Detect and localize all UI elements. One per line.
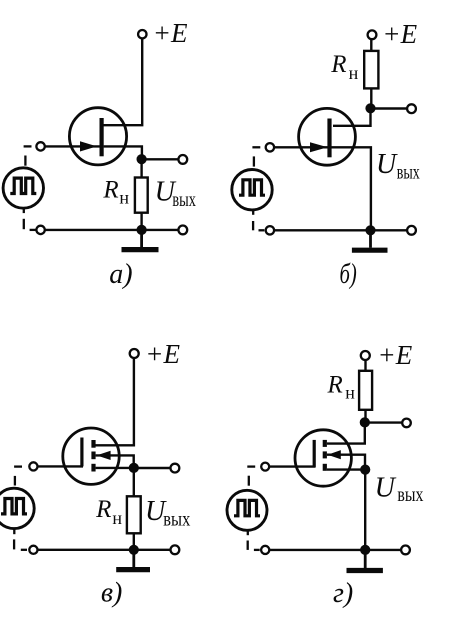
wire node to resistor a: [140, 159, 142, 177]
ground b: [352, 230, 388, 250]
svg-text:н: н: [345, 383, 355, 403]
ground g: [347, 550, 383, 571]
label Rn g: [327, 371, 356, 402]
generator G4 g: [227, 490, 267, 530]
node input terminal bottom b: [266, 226, 274, 234]
junction source node g: [360, 465, 370, 475]
node input terminal bottom a: [36, 226, 44, 234]
svg-text:б): б): [340, 259, 357, 290]
label Uout g: [375, 473, 424, 506]
svg-text:+E: +E: [153, 18, 188, 48]
svg-text:н: н: [119, 188, 129, 208]
wire dashed input bottom v: [14, 529, 27, 550]
wire dashed input top g: [247, 467, 255, 486]
wire dashed input bottom a: [24, 208, 36, 230]
node output terminal bottom g: [401, 546, 410, 555]
junction drain node b: [365, 103, 375, 113]
wire dashed input bottom g: [248, 530, 260, 550]
transistor VT1 JFET a: [69, 108, 126, 165]
wire resistor to node g: [364, 410, 366, 423]
svg-text:R: R: [102, 177, 118, 204]
node input terminal top b: [266, 143, 274, 151]
junction bottom node a: [137, 225, 147, 235]
wire bottom rail v: [38, 549, 171, 551]
node output terminal top g: [402, 419, 411, 428]
svg-text:U: U: [375, 473, 397, 504]
wire resistor to rail a: [140, 213, 142, 230]
wire gate b: [274, 146, 327, 148]
resistor Rn a: [135, 178, 148, 213]
node output terminal bottom v: [171, 545, 180, 554]
wire source node to rail g: [364, 470, 366, 550]
svg-text:в): в): [101, 578, 122, 609]
resistor Rn b: [364, 51, 378, 89]
junction bottom node g: [360, 545, 370, 555]
svg-text:R: R: [95, 496, 111, 523]
svg-text:R: R: [327, 371, 343, 398]
wire +E to resistor b: [370, 39, 372, 51]
wire output top v: [134, 467, 171, 469]
node input terminal bottom v: [29, 546, 37, 554]
ground v: [116, 550, 150, 570]
wire resistor to rail v: [133, 533, 135, 550]
wire substrate to node v: [96, 455, 134, 468]
wire source to node v: [96, 467, 134, 469]
wire bottom rail g: [269, 549, 401, 551]
wire source to rail b: [332, 147, 371, 230]
wire output top a: [142, 158, 179, 160]
node output terminal bottom b: [407, 226, 416, 235]
wire output top g: [365, 421, 403, 423]
svg-text:+E: +E: [145, 339, 180, 369]
node input terminal top v: [29, 462, 37, 470]
wire dashed input top a: [24, 146, 32, 165]
node +E terminal a: [138, 30, 146, 38]
junction bottom node v: [129, 545, 139, 555]
svg-text:U: U: [376, 149, 398, 180]
resistor Rn v: [127, 496, 141, 533]
label Uout v: [145, 496, 190, 530]
wire dashed input top b: [252, 147, 260, 166]
label Uout b: [376, 149, 420, 184]
svg-text:н: н: [349, 63, 359, 83]
wire node to resistor v: [133, 468, 135, 497]
wire resistor to node b: [370, 88, 372, 108]
svg-text:вых: вых: [397, 162, 420, 184]
svg-text:вых: вых: [172, 189, 196, 211]
label Rn b: [330, 51, 358, 83]
node output terminal bottom a: [178, 226, 187, 235]
svg-text:R: R: [330, 51, 346, 78]
resistor Rn g: [359, 371, 372, 410]
generator G1 a: [3, 168, 43, 208]
svg-text:вых: вых: [163, 508, 190, 530]
svg-text:+E: +E: [378, 340, 413, 370]
wire dashed input bottom b: [253, 210, 264, 230]
junction drain node g: [360, 417, 370, 427]
wire output top b: [371, 107, 408, 109]
junction bottom node b: [365, 225, 375, 235]
node input terminal bottom g: [261, 546, 269, 554]
transistor VT4 MOSFET g: [295, 430, 351, 486]
wire drain to +E a: [102, 38, 143, 125]
node input terminal top a: [36, 142, 44, 150]
label Uout a: [155, 176, 196, 210]
svg-text:а): а): [109, 259, 132, 290]
svg-text:вых: вых: [397, 484, 423, 506]
junction source node a: [137, 154, 147, 164]
generator G2 b: [232, 170, 272, 210]
junction source node v: [129, 463, 139, 473]
wire bottom rail b: [274, 229, 407, 231]
transistor VT3 MOSFET v: [63, 428, 119, 484]
wire source to node g: [327, 468, 365, 470]
svg-text:н: н: [112, 508, 122, 528]
wire dashed input top v: [14, 467, 22, 486]
node output terminal top a: [178, 155, 187, 164]
ground a: [122, 230, 159, 250]
wire node to drain b: [333, 108, 371, 126]
node output terminal top b: [407, 104, 416, 113]
wire source to node a: [104, 146, 142, 159]
wire +E to resistor g: [364, 360, 366, 371]
node output terminal top v: [171, 464, 180, 473]
node +E terminal g: [361, 351, 370, 360]
wire gate v: [38, 465, 83, 467]
node input terminal top g: [261, 463, 269, 471]
label Rn a: [102, 177, 129, 208]
svg-text:г): г): [333, 578, 353, 609]
wire node to drain g: [327, 422, 365, 443]
wire gate a: [45, 145, 100, 147]
wire substrate to node g: [327, 455, 365, 470]
wire drain to +E v: [96, 358, 134, 445]
generator G3 v: [0, 488, 34, 528]
node +E terminal v: [130, 349, 139, 358]
node +E terminal b: [368, 30, 377, 39]
svg-text:+E: +E: [382, 19, 417, 49]
wire bottom rail a: [45, 229, 179, 231]
wire gate g: [269, 465, 315, 467]
transistor VT2 JFET b: [299, 108, 356, 165]
label Rn v: [95, 496, 122, 528]
